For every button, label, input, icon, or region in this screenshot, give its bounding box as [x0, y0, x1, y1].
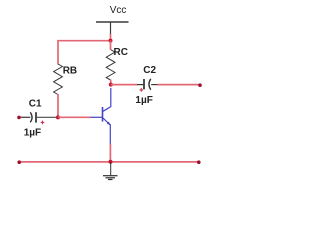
svg-text:1µF: 1µF	[135, 95, 152, 106]
polarity plus of C1	[41, 121, 45, 125]
terminal dot bottom right	[197, 160, 201, 164]
wire node C to C2	[111, 84, 138, 86]
svg-text:C1: C1	[29, 98, 42, 109]
resistor RC	[106, 50, 115, 80]
wire bottom rail	[19, 161, 199, 163]
svg-text:Vcc: Vcc	[110, 5, 127, 16]
transistor Q1	[90, 88, 111, 145]
svg-text:C2: C2	[143, 65, 156, 76]
capacitor C2	[137, 79, 158, 90]
polarity plus of C2	[140, 88, 144, 92]
node B junction dot	[56, 115, 60, 119]
wire Vcc stem to node A	[110, 34, 112, 41]
power symbol Vcc stem	[110, 22, 112, 35]
svg-text:RB: RB	[63, 66, 77, 77]
capacitor C1	[19, 112, 58, 122]
node A junction dot	[109, 39, 113, 43]
terminal dot bottom left	[17, 160, 21, 164]
ground symbol	[103, 162, 118, 180]
wire C2 to output terminal	[158, 84, 201, 86]
wire node A to RC top	[110, 41, 112, 51]
wire RC bottom to node C	[110, 80, 112, 85]
wire node B to transistor base	[58, 116, 90, 118]
node D junction dot	[109, 160, 113, 164]
wire RB bottom to node B	[57, 94, 59, 117]
node C junction dot	[109, 83, 113, 87]
power symbol Vcc bar	[96, 21, 129, 23]
resistor RB	[54, 64, 63, 95]
terminal dot C1 left	[17, 116, 21, 120]
svg-text:RC: RC	[114, 47, 128, 58]
svg-text:1µF: 1µF	[24, 127, 41, 138]
wire top horizontal node A to RB branch	[58, 41, 111, 65]
wire emitter down to node D	[109, 144, 111, 162]
terminal dot C2 right	[198, 83, 202, 87]
